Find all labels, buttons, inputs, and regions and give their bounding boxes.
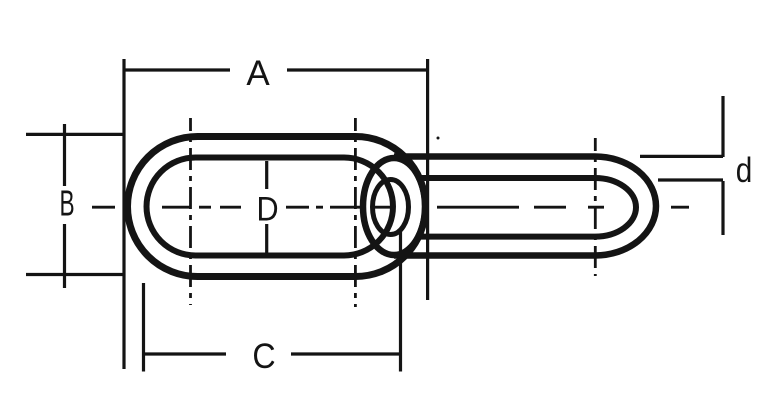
left chain link inner contour [147, 158, 393, 256]
second link left end cap inner ellipse [373, 180, 409, 235]
dimension d top extension line [640, 155, 723, 158]
label C [252, 338, 275, 377]
left chain link outer contour [128, 137, 426, 277]
second link left end cap outer ellipse [363, 158, 425, 255]
dimension A line [124, 68, 428, 71]
label d [736, 151, 753, 190]
dimension B top line [26, 133, 125, 136]
dimension A left extension line [122, 59, 125, 369]
svg-text:B: B [59, 184, 74, 223]
dimension C line [144, 352, 401, 355]
dimension B vertical line [63, 124, 66, 288]
svg-text:C: C [252, 338, 275, 377]
label B [59, 184, 74, 223]
second link inner contour [420, 178, 636, 237]
left arc center mark [189, 118, 192, 305]
dimension d bottom extension line [658, 178, 723, 181]
arc center mark of second link [594, 138, 597, 276]
small speck [437, 137, 440, 140]
dimension C right extension line [399, 232, 402, 372]
svg-text:D: D [256, 190, 278, 228]
label D [256, 190, 278, 228]
second link outer contour [394, 157, 656, 256]
dimension B bottom line [26, 273, 125, 276]
horizontal centerline [92, 206, 689, 209]
right arc center mark of left link [354, 118, 357, 307]
dimension C left extension line [142, 283, 145, 372]
dimension A right extension line [426, 59, 429, 300]
label D vertical line [265, 161, 268, 254]
svg-text:A: A [246, 54, 270, 93]
dimension d vertical line [721, 96, 724, 235]
svg-text:d: d [736, 151, 753, 190]
